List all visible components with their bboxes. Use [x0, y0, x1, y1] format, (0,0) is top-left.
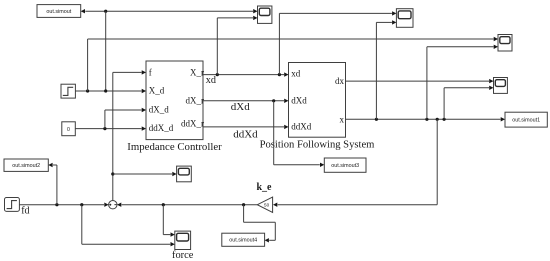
wire x feedback drop	[436, 119, 438, 204]
wire out.simout4 drop 2	[274, 222, 276, 240]
svg-text:fd: fd	[21, 205, 29, 216]
arrow into Scope in2	[253, 16, 257, 20]
arrow into Scope2 in2	[489, 86, 493, 90]
To-Workspace block out.simout3	[324, 158, 366, 172]
wire out.simout4 run	[244, 221, 276, 223]
svg-text:f: f	[149, 67, 152, 77]
wire x feedback run to gain	[278, 204, 438, 206]
wire ddX_r to ddXd port	[203, 126, 284, 128]
svg-text:out.simout1: out.simout1	[512, 118, 540, 124]
arrow into ddX_d port	[142, 126, 146, 130]
arrow into Scope2 in1	[489, 79, 493, 83]
svg-text:Position Following System: Position Following System	[260, 139, 376, 150]
svg-text:xd: xd	[291, 69, 301, 79]
arrow into xd/x scope in1	[392, 11, 396, 15]
arrow into dXd port	[284, 99, 288, 103]
wire x to xd/x scope input 2	[376, 21, 392, 23]
wire to out.simout (left run)	[85, 10, 105, 12]
wire fd riser to out.simout2	[56, 165, 58, 205]
To-Workspace block out.simout1	[505, 112, 547, 127]
wire constant riser	[104, 110, 106, 129]
arrow into out.simout2	[48, 163, 52, 167]
wire force error to scope	[113, 173, 172, 175]
arrow into out.simout1	[501, 117, 505, 121]
svg-text:X_r: X_r	[190, 68, 204, 78]
wire x to out.simout1	[346, 118, 501, 120]
wire X_r to xd port	[203, 74, 284, 76]
gain k_e (triangle, value 50)	[257, 197, 272, 212]
wire dXd drop to out.simout3	[273, 101, 275, 165]
arrow into out.simout3	[320, 163, 324, 167]
arrow into xd/x scope in2	[392, 20, 396, 24]
svg-text:X_d: X_d	[149, 86, 165, 96]
wire x riser to Scope2	[443, 88, 445, 120]
wire out.simout4 drop	[243, 205, 245, 223]
wire k_e force into scope	[163, 234, 170, 236]
wire x to Scope2 input 2	[444, 87, 489, 89]
wire xd run to xd/x scope input 1	[279, 12, 392, 14]
step source (X_d)	[61, 84, 75, 98]
svg-text:dX_d: dX_d	[149, 105, 169, 115]
wire into out.simout2	[53, 164, 57, 166]
junction x branch A	[375, 118, 378, 121]
junction x feedback branch	[436, 118, 439, 121]
subsystem block Impedance Controller	[146, 61, 203, 140]
To-Workspace block out.simout4	[222, 233, 265, 246]
wire dXd to out.simout3	[274, 164, 320, 166]
scope Scope (force error)	[177, 166, 192, 182]
wire fd run to force scope	[82, 243, 171, 245]
wire constant to dX_d port	[105, 109, 142, 111]
arrow into sum left	[104, 203, 108, 207]
svg-text:out.simout: out.simout	[46, 9, 71, 15]
wire dx to Scope2 input 1	[346, 80, 490, 82]
svg-text:k_e: k_e	[257, 182, 273, 193]
wire into out.simout4	[269, 239, 275, 241]
wire dX_r to dXd port	[203, 100, 284, 102]
arrow into sum right	[117, 203, 121, 207]
arrow into X_d port	[142, 89, 146, 93]
svg-text:0: 0	[67, 127, 70, 133]
svg-text:xd: xd	[206, 75, 216, 86]
svg-text:out.simout3: out.simout3	[331, 163, 359, 169]
scope Scope1	[498, 35, 512, 52]
arrow into dX_d port	[142, 108, 146, 112]
wire k_e force drop	[162, 205, 164, 235]
arrow into ddXd port	[284, 125, 288, 129]
junction force error branch	[111, 172, 114, 175]
To-Workspace block out.simout2	[4, 159, 48, 171]
scope Scope (xd vs x)	[396, 9, 413, 28]
wire gain output to sum (-)	[122, 204, 258, 206]
wire step to X_d port	[75, 90, 141, 92]
arrow into Scope1 in1	[494, 37, 498, 41]
wire xd riser to top scope	[278, 13, 280, 74]
wire sum output riser to f	[112, 72, 114, 200]
wire X_r riser to Scope	[216, 18, 218, 75]
junction constant branch	[103, 127, 106, 130]
junction x branch C	[443, 118, 446, 121]
svg-text:out.simout4: out.simout4	[229, 238, 257, 244]
wire X_r to Scope input 2	[217, 17, 253, 19]
junction X_d branch top	[104, 10, 107, 13]
svg-text:dXd: dXd	[231, 101, 250, 113]
junction fd branch A (out.simout2)	[55, 203, 58, 206]
junction X_d branch A	[86, 89, 89, 92]
wire x to Scope1 input 2	[427, 46, 494, 48]
arrow into force scope in2	[171, 242, 175, 246]
scope Scope (X_d vs X_r)	[258, 6, 272, 23]
arrow into Scope in1	[253, 9, 257, 13]
wire into f port	[113, 71, 142, 73]
arrow into xd port	[284, 72, 288, 76]
arrow into Scope1 in2	[494, 45, 498, 49]
scope Scope2	[494, 78, 508, 94]
junction force branch (k_e side)	[162, 203, 165, 206]
wire X_d riser to long run	[87, 39, 89, 91]
arrow into force-error scope	[172, 172, 176, 176]
wire X_d branch vertical	[105, 11, 107, 91]
svg-text:ddXd: ddXd	[291, 122, 311, 132]
constant block 0	[62, 122, 76, 136]
wire constant to ddX_d port	[75, 128, 141, 130]
wire X_d long run to Scope1 input 1	[88, 38, 494, 40]
To-Workspace block out.simout	[37, 5, 81, 18]
wire fd drop to force scope	[81, 205, 83, 245]
arrow into gain k_e	[273, 203, 277, 207]
svg-text:dx: dx	[335, 76, 345, 86]
step source fd	[5, 198, 20, 212]
junction gain out branch (out.simout4)	[242, 203, 245, 206]
svg-text:50: 50	[264, 202, 270, 207]
arrow into f port	[142, 70, 146, 74]
junction fd branch B (force scope)	[80, 203, 83, 206]
arrow into force scope in1	[171, 232, 175, 236]
svg-text:force: force	[172, 250, 194, 261]
wire X_d to Scope input 1	[106, 10, 253, 12]
scope scope force	[175, 231, 191, 249]
junction dXd branch	[272, 99, 275, 102]
svg-text:out.simout2: out.simout2	[12, 163, 40, 169]
subsystem block Position Following System	[289, 63, 346, 138]
svg-text:ddX_d: ddX_d	[149, 123, 174, 133]
svg-text:dXd: dXd	[291, 95, 307, 105]
svg-text:ddXd: ddXd	[233, 129, 258, 141]
junction x branch B	[425, 118, 428, 121]
wire x riser to xd/x scope	[375, 22, 377, 119]
junction X_r branch B	[278, 73, 281, 76]
svg-text:ddX_r: ddX_r	[181, 119, 204, 129]
junction X_r branch A	[216, 73, 219, 76]
arrow into out.simout	[81, 9, 85, 13]
svg-text:x: x	[340, 115, 345, 125]
junction X_d branch B	[104, 89, 107, 92]
svg-text:dX_r: dX_r	[186, 95, 205, 105]
wire x riser to Scope1	[426, 47, 428, 120]
svg-text:Impedance Controller: Impedance Controller	[127, 141, 222, 153]
arrow into out.simout4	[265, 238, 269, 242]
wire fd to sum (+)	[19, 204, 104, 206]
sum junction (+/-)	[109, 201, 117, 209]
